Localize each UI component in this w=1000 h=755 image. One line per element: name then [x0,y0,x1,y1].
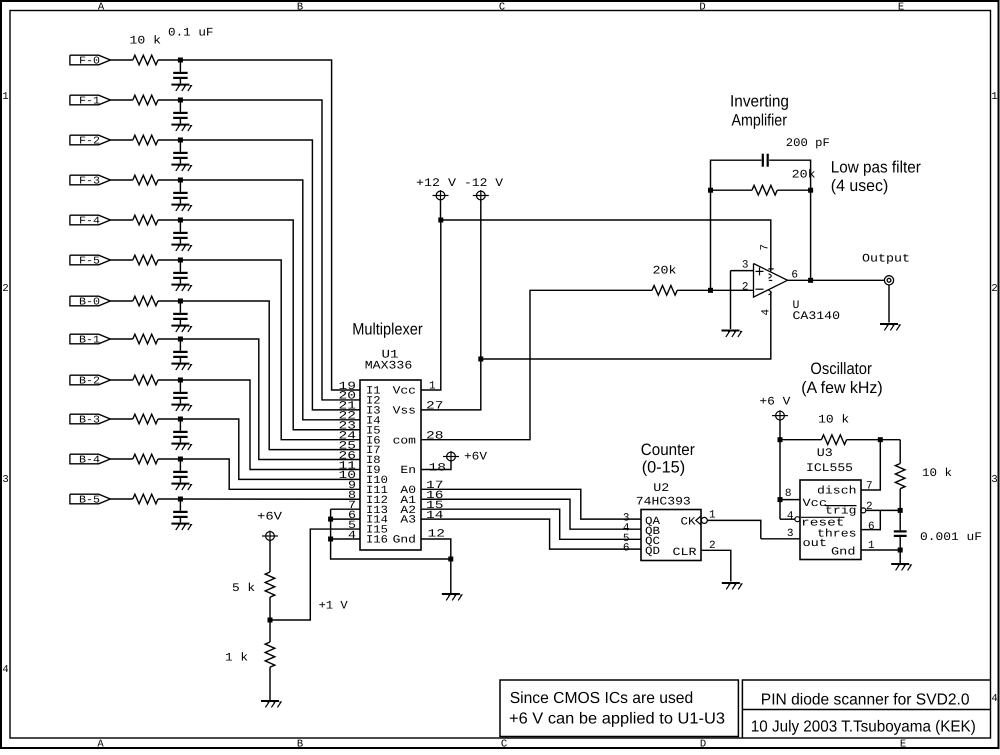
svg-text:+6 V can be applied to U1-U3: +6 V can be applied to U1-U3 [509,711,725,728]
bubble CK pin 1 [701,517,707,523]
power +6V at En [443,451,459,462]
power +6V oscillator [772,410,788,421]
resistor 10k B-1 [133,334,158,344]
wire F-1 to resistor [110,99,132,101]
wire I16 stub [331,538,360,540]
svg-text:0.1 uF: 0.1 uF [168,27,214,40]
svg-text:I16: I16 [366,535,388,547]
connector B-2 [70,375,111,387]
junction disch tie [878,437,883,442]
svg-text:F-2: F-2 [79,136,100,148]
wire resistor to node F-5 [158,259,180,261]
svg-text:Amplifier: Amplifier [732,112,788,130]
svg-text:F-0: F-0 [79,56,100,68]
svg-text:6: 6 [623,543,630,555]
wire A0 to counter QA [421,489,641,519]
title block [742,680,990,738]
junction mux ground tie [448,557,453,562]
svg-text:2: 2 [2,283,8,295]
svg-text:1: 1 [991,91,997,103]
pin label trig [825,506,857,518]
wire F-0 to resistor [110,59,132,61]
resistor 10k B-3 [133,414,158,424]
svg-text:Oscillator: Oscillator [810,360,872,378]
connector B-4 [70,454,111,466]
connector F-4 [70,215,111,227]
junction node B-4 [178,457,183,462]
resistor 10k F-0 [133,55,158,65]
wire F-4 to multiplexer I5 [180,220,360,430]
svg-text:Vcc: Vcc [803,498,828,510]
wire to 10k horizontal [780,439,821,441]
junction node B-0 [178,299,183,304]
svg-text:B: B [297,739,303,751]
capacitor 0.1uF F-3 [173,182,187,204]
wire resistor to node B-4 [158,458,180,460]
resistor 10k F-5 [133,255,158,265]
ground F-3 [171,204,191,211]
resistor 10k F-3 [133,175,158,185]
wire A3 to counter QD [421,519,641,549]
capacitor 0.1uF F-4 [173,222,187,244]
svg-text:En: En [400,465,416,477]
svg-text:2: 2 [991,283,997,295]
svg-text:10 k: 10 k [130,35,162,48]
wire +6V to 5k [269,541,271,573]
svg-text:14: 14 [426,510,444,522]
wire B-0 to resistor [110,300,132,302]
power -12V [473,190,489,201]
resistor 10k F-2 [133,135,158,145]
op IC U1 MAX336 multiplexer body [360,380,421,550]
resistor 10k B-4 [133,454,158,464]
capacitor 0.1uF F-2 [173,142,187,164]
svg-text:A: A [97,739,104,751]
wire B-1 to resistor [110,338,132,340]
ground B-1 [171,363,191,370]
wire resistor to node B-0 [158,300,180,302]
resistor 1k [265,642,275,667]
wire pin 3 to ground [730,271,732,329]
svg-text:2: 2 [742,281,749,293]
wire F-1 to multiplexer I2 [180,100,360,400]
svg-text:C: C [501,739,507,751]
ground output [880,323,900,330]
svg-text:trig: trig [825,506,857,518]
capacitor 0.1uF B-3 [173,421,187,443]
svg-text:Counter: Counter [641,441,695,459]
capacitor 0.1uF B-1 [173,341,187,363]
capacitor 0.1uF B-2 [173,382,187,404]
svg-text:B-2: B-2 [79,376,100,388]
wire reset pin 4 [780,518,795,520]
svg-text:com: com [393,435,417,447]
ground B-5 [171,523,191,530]
svg-text:20k: 20k [653,264,677,277]
svg-text:Since CMOS ICs are used: Since CMOS ICs are used [510,690,694,707]
wire Vcc pin 8 [780,499,800,501]
junction feedback left [708,188,713,193]
svg-text:Gnd: Gnd [393,535,416,547]
wire resistor to node F-1 [158,99,180,101]
svg-text:4: 4 [348,530,356,542]
junction 10k top [778,437,783,442]
junction node F-3 [178,178,183,183]
wire B-5 to resistor [110,498,132,500]
svg-text:CK: CK [681,516,696,528]
svg-text:(A few kHz): (A few kHz) [801,379,883,397]
wire 20k to op-amp pin 2 [677,289,753,291]
svg-text:out: out [803,538,828,550]
svg-text:18: 18 [429,463,447,475]
wire F-3 to resistor [110,179,132,181]
svg-text:1: 1 [429,381,436,393]
wire resistor to node F-3 [158,179,180,181]
svg-text:3: 3 [2,474,8,486]
ground F-1 [171,124,191,131]
junction I14 tie [328,517,333,522]
wire resistor to node B-2 [158,379,180,381]
svg-text:QD: QD [645,546,660,558]
svg-text:E: E [900,739,906,751]
junction feedback right [808,188,813,193]
svg-text:C: C [499,2,505,14]
connector B-1 [70,334,111,346]
capacitor 200pF [762,154,769,167]
clock wedge [696,516,701,525]
svg-text:B-0: B-0 [79,297,100,309]
wire En pin 18 to +6V [421,461,451,469]
resistor 20k feedback [752,185,777,195]
connector B-3 [70,414,111,426]
svg-text:B-5: B-5 [79,495,100,507]
bubble reset pin 4 [795,517,800,522]
svg-text:F-3: F-3 [79,176,100,188]
connector F-2 [70,135,111,147]
junction -12V branch [478,357,483,362]
wire resistor to node F-0 [158,59,180,61]
wire op-amp output [788,279,885,281]
ground mux [442,593,462,600]
op-amp U CA3140 [754,264,788,298]
junction node F-4 [178,218,183,223]
resistor 10k F-4 [133,215,158,225]
svg-text:Inverting: Inverting [730,93,789,111]
wire thres pin 6 [861,510,880,529]
capacitor 0.001 uF [894,530,907,537]
wire Gnd pin 12 to ground [421,539,451,593]
svg-text:1 k: 1 k [225,652,248,665]
junction Vcc pin 8 [778,497,783,502]
svg-text:F-4: F-4 [79,216,100,228]
wire I14 stub [331,518,360,520]
resistor 20k input [652,286,677,296]
svg-text:(4 usec): (4 usec) [831,177,889,195]
wire Vcc pin 1 to +12V [421,220,441,390]
wire out pin 3 [761,538,800,540]
svg-text:Low pas filter: Low pas filter [831,159,921,177]
wire F-3 to multiplexer I4 [180,180,360,420]
wire A1 to counter QB [421,499,641,529]
resistor 10k B-5 [133,494,158,504]
wire B-3 to multiplexer I10 [180,419,360,479]
svg-text:6: 6 [868,521,875,533]
capacitor 0.1uF B-0 [173,303,187,325]
wire feedback resistor path left [711,189,753,191]
wire F-2 to multiplexer I3 [180,140,360,410]
wire I15 to +1V node [270,529,360,620]
svg-text:+1 V: +1 V [319,600,348,613]
svg-text:10 k: 10 k [922,467,952,480]
resistor 5k [265,572,275,597]
svg-text:Vss: Vss [393,405,416,417]
svg-text:disch: disch [817,486,857,498]
ground F-0 [171,84,191,91]
connector F-5 [70,255,111,267]
wire B-0 to multiplexer I7 [180,301,360,450]
wire CLR to ground [701,550,731,581]
junction I16 tie [328,536,333,541]
svg-text:Gnd: Gnd [831,546,856,558]
wire resistor to node F-2 [158,139,180,141]
svg-text:A3: A3 [400,515,416,527]
wire F-5 to multiplexer I6 [180,260,360,440]
svg-text:7: 7 [760,244,772,251]
ground B-0 [171,325,191,332]
ground op-amp pin 3 [722,330,742,337]
svg-text:+6V: +6V [464,451,487,464]
svg-text:(0-15): (0-15) [642,459,686,477]
wire op-amp pin 3 [731,270,754,272]
wire B-4 to resistor [110,458,132,460]
pin label reset [801,517,845,529]
wire F-2 to resistor [110,139,132,141]
wire cap to gnd pin 1 [899,537,901,563]
ground B-3 [171,443,191,450]
IC U2 74HC393 body [641,510,701,561]
junction output feedback [808,278,813,283]
svg-text:U3: U3 [817,447,833,460]
wire resistor to node B-3 [158,418,180,420]
svg-text:F-5: F-5 [79,256,100,268]
svg-text:+6V: +6V [257,511,282,524]
svg-text:3: 3 [742,260,749,272]
junction node F-0 [178,58,183,63]
wire resistor to node F-4 [158,219,180,221]
note box [500,680,738,737]
junction node B-1 [178,337,183,342]
wire B-2 to resistor [110,379,132,381]
junction pin 1 [898,548,903,553]
connector B-0 [70,296,111,308]
ground F-2 [171,164,191,171]
resistor 10k oscillator top [821,435,846,445]
wire resistor to node B-1 [158,338,180,340]
svg-text:D: D [700,739,706,751]
wire I13 I14 I16 tie to ground [331,509,451,559]
wire feedback top path [711,160,811,290]
wire resistor to node B-5 [158,498,180,500]
junction +12V rail [438,218,443,223]
svg-text:4: 4 [787,510,794,522]
wire Gnd pin 1 [861,549,900,551]
svg-text:3: 3 [991,474,997,486]
resistor 10k F-1 [133,95,158,105]
capacitor 0.1uF B-4 [173,461,187,483]
junction node B-3 [178,417,183,422]
connector F-3 [70,175,111,187]
ground divider [261,700,281,707]
resistor 10 k vertical [895,464,905,489]
wire trig to node [866,509,900,511]
svg-text:Vcc: Vcc [393,386,416,398]
wire B-1 to multiplexer I8 [180,339,360,460]
svg-text:+12 V: +12 V [416,177,456,190]
svg-text:B-4: B-4 [79,455,100,467]
junction inverting input [708,288,713,293]
wire node to 1k [269,620,271,642]
svg-text:1: 1 [2,91,8,103]
resistor 10k B-0 [133,296,158,306]
capacitor 0.1uF F-1 [173,102,187,124]
wire -12V to Vss pin 27 [421,200,481,410]
svg-text:+6 V: +6 V [759,395,790,408]
capacitor 0.1uF F-0 [173,62,187,84]
bubble trig pin 2 [861,508,866,513]
wire F-0 to multiplexer I1 [180,60,360,390]
svg-text:20k: 20k [792,169,816,182]
svg-text:A: A [98,2,105,14]
svg-text:CA3140: CA3140 [793,310,841,323]
svg-text:ICL555: ICL555 [806,462,853,475]
junction node F-1 [178,98,183,103]
svg-text:28: 28 [426,430,444,442]
connector B-5 [70,494,111,506]
wire I13 stub [331,508,360,510]
wire CK to 555 out [707,520,761,538]
svg-text:F-1: F-1 [79,96,100,108]
wire F-5 to resistor [110,259,132,261]
ground B-4 [171,483,191,490]
wire 10k to corner [847,439,901,441]
wire +6V down [779,420,781,519]
wire -12V to op-amp pin 4 [481,292,771,360]
wire 5k to node +1V [269,597,271,620]
svg-text:0.001 uF: 0.001 uF [920,531,982,544]
power +12V [433,190,449,220]
svg-text:E: E [898,2,904,14]
wire 1k to ground [269,667,271,700]
svg-text:10 July 2003 T.Tsuboyama (KEK: 10 July 2003 T.Tsuboyama (KEK) [751,718,976,735]
ground B-2 [171,404,191,411]
svg-text:D: D [699,2,705,14]
output terminal [884,276,893,285]
ground F-5 [171,284,191,291]
wire B-2 to multiplexer I9 [180,380,360,469]
junction trig thres node [898,508,903,513]
svg-text:U2: U2 [653,482,669,495]
svg-text:12: 12 [428,528,446,540]
svg-text:4: 4 [2,664,8,676]
wire corner down to vertical 10k [899,440,901,464]
junction node F-5 [178,258,183,263]
resistor 10k B-2 [133,375,158,385]
svg-text:Multiplexer: Multiplexer [352,321,423,339]
wire B-3 to resistor [110,418,132,420]
ground F-4 [171,244,191,251]
svg-text:MAX336: MAX336 [365,360,413,373]
svg-text:B: B [297,2,303,14]
wire com pin 28 to 20k input resistor [421,290,652,439]
svg-text:B-3: B-3 [79,415,100,427]
ground counter [722,582,742,589]
svg-text:4: 4 [761,309,773,316]
svg-text:2: 2 [866,501,873,513]
svg-text:Output: Output [862,253,910,266]
junction node F-2 [178,138,183,143]
svg-text:B-1: B-1 [79,335,100,347]
wire B-5 to multiplexer I12 [180,498,360,500]
capacitor 0.1uF B-5 [173,501,187,523]
svg-text:200 pF: 200 pF [786,137,830,150]
wire B-4 to multiplexer I11 [180,459,360,489]
svg-text:4: 4 [991,693,997,705]
svg-text:74HC393: 74HC393 [636,496,691,509]
svg-text:5 k: 5 k [232,582,255,595]
wire feedback resistor path right [777,189,810,191]
wire F-4 to resistor [110,219,132,221]
svg-text:27: 27 [426,401,444,413]
wire disch pin 7 [861,440,880,490]
connector F-1 [70,95,111,107]
wire output to ground [888,285,890,323]
svg-text:PIN diode scanner for SVD2.0: PIN diode scanner for SVD2.0 [761,691,970,708]
wire A2 to counter QC [421,509,641,539]
wire vertical 10k to trig node [899,489,901,531]
wire +12V rail to op-amp pin 7 [441,220,771,271]
IC U3 ICL555 body [800,480,861,560]
svg-text:-12 V: -12 V [464,177,503,190]
power +6V divider [262,531,278,542]
svg-text:7: 7 [866,481,873,493]
junction node B-2 [178,378,183,383]
ground oscillator [891,563,911,570]
svg-text:10 k: 10 k [818,414,849,427]
junction node B-5 [178,497,183,502]
connector F-0 [70,55,111,67]
junction +1V node [268,618,273,623]
svg-text:8: 8 [785,488,792,500]
svg-text:CLR: CLR [673,547,697,559]
capacitor 0.1uF F-5 [173,262,187,284]
